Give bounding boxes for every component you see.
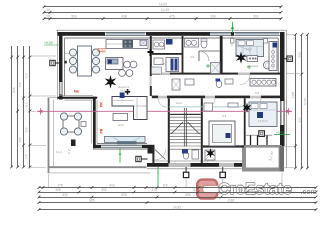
svg-text:+0,00: +0,00: [276, 131, 284, 135]
svg-text:table: table: [118, 123, 125, 127]
left dimension ticks: [10, 56, 31, 169]
svg-text:310: 310: [25, 73, 29, 78]
door gap bottom wall 1: [169, 163, 191, 168]
bedside tables: [231, 39, 235, 44]
bath2 lower cab: [152, 67, 162, 74]
bottom wall band: [147, 163, 246, 167]
door arc bath2: [160, 63, 170, 73]
dining chairs: [69, 49, 99, 73]
red label kitchen: [98, 49, 105, 52]
svg-text:375: 375: [57, 184, 63, 188]
laundry room fixture: [205, 150, 215, 160]
svg-text:30: 30: [46, 15, 50, 19]
bedroom1 dresser: [247, 56, 258, 62]
svg-text:500: 500: [253, 15, 259, 19]
balcony parapet bottom right: [242, 145, 283, 172]
svg-text:12,4: 12,4: [56, 150, 62, 154]
bath2 washer: [166, 58, 179, 72]
svg-text:24,5 m²: 24,5 m²: [120, 89, 130, 93]
interior wall kitchen-hall vertical: [150, 36, 152, 96]
roof overhang outer line top: [56, 29, 286, 31]
green line right: [274, 134, 290, 136]
window left wall: [59, 82, 62, 95]
stairs center rails: [184, 108, 186, 147]
svg-text:st: st: [68, 151, 70, 155]
svg-text:4,6: 4,6: [160, 62, 165, 66]
green cross 1: [247, 65, 251, 69]
bottom dimension lines: [39, 188, 316, 210]
svg-text:11,8 m²: 11,8 m²: [258, 119, 268, 123]
svg-text:500: 500: [71, 15, 77, 19]
extension into living: [65, 53, 78, 55]
bedroom1 door arc: [240, 75, 250, 85]
outer wall top inner face line: [65, 37, 279, 39]
svg-text:265: 265: [25, 127, 29, 132]
interior wall bath right vertical: [182, 36, 184, 73]
small wc fixtures mid: [216, 80, 222, 87]
door gap bottom wall 2: [219, 163, 234, 168]
stair guard glass line: [169, 106, 246, 108]
window jamb bedroom1: [231, 36, 233, 46]
sofa: [112, 97, 147, 120]
interior wall wc-bath horizontal: [152, 53, 183, 55]
door arc bedroom2: [250, 98, 261, 109]
svg-text:1105: 1105: [291, 91, 295, 98]
wc navy shelf: [166, 39, 173, 45]
bottom dimension labels: [55, 184, 243, 210]
svg-text:14,95: 14,95: [159, 3, 167, 7]
step wall horizontal left: [58, 97, 98, 99]
stairwell left wall: [168, 98, 170, 163]
svg-text:115: 115: [25, 102, 29, 107]
wall cross symbol: [148, 49, 154, 56]
svg-text:530: 530: [121, 193, 127, 197]
svg-text:stub.: stub.: [176, 101, 183, 105]
outer wall top band: [58, 32, 285, 36]
bottom wall inner line: [154, 160, 246, 162]
sofa side table: [120, 93, 125, 99]
door arc bath3: [205, 98, 215, 108]
kitchen counter top: [106, 40, 148, 49]
pouf: [264, 61, 272, 69]
top dimension ticks: [43, 5, 283, 20]
svg-text:410: 410: [109, 184, 115, 188]
stairwell right wall: [201, 98, 203, 163]
svg-text:310: 310: [151, 188, 157, 192]
svg-text:490: 490: [185, 193, 191, 197]
stairs treads: [170, 114, 201, 149]
roof overhang outer line right: [285, 30, 287, 168]
svg-text:438: 438: [121, 15, 127, 19]
interior wall bedroom1 left vertical: [220, 36, 223, 73]
bath3 radiator: [228, 103, 238, 107]
hall fixtures left: [185, 79, 194, 85]
window right wall: [281, 101, 284, 125]
window top bedroom: [234, 32, 280, 35]
bath3 shower: [209, 121, 235, 146]
svg-text:PR: PR: [100, 102, 104, 107]
svg-text:885: 885: [89, 199, 95, 203]
right dimension lines: [296, 35, 308, 169]
svg-text:PR: PR: [100, 128, 104, 133]
bath3 bottom wall: [203, 145, 244, 147]
svg-text:390: 390: [297, 52, 301, 57]
kitchen island: [106, 58, 124, 70]
svg-text:390: 390: [101, 188, 107, 192]
bath3 small square: [226, 133, 231, 138]
coffee table: [113, 114, 128, 121]
column 1 below wall: [183, 172, 188, 177]
terrace table: [63, 116, 79, 132]
bath3 sink: [204, 103, 213, 111]
svg-text:170: 170: [25, 154, 29, 159]
tv lowboard: [105, 136, 146, 142]
left dimension labels: [12, 73, 28, 159]
svg-text:+0,00: +0,00: [44, 41, 53, 45]
step wall vertical: [93, 97, 96, 149]
living room bottom wall: [93, 145, 155, 149]
bedroom2 bed: [249, 102, 277, 127]
CroEstate logo mark: [197, 180, 219, 199]
vestibule door leaf: [155, 150, 166, 160]
wall switch: [64, 61, 67, 64]
bath1 door arc: [199, 51, 209, 61]
svg-text:30: 30: [46, 8, 50, 12]
bath1 toilet: [201, 40, 207, 48]
plant living: [105, 75, 117, 89]
outer wall right inner face line: [277, 38, 279, 73]
room area labels: [56, 44, 268, 154]
stairs cut line: [171, 122, 200, 134]
dimension extension lines left: [31, 56, 56, 167]
stove: [123, 40, 134, 48]
door arc corridor-living: [158, 98, 167, 107]
bottom wall outer line: [147, 168, 246, 170]
island stools: [119, 61, 137, 76]
left dimension lines: [12, 46, 30, 167]
svg-text:425: 425: [18, 82, 22, 87]
dimension extension lines right: [283, 35, 300, 168]
plant lower hall: [206, 148, 215, 158]
svg-text:11,2: 11,2: [246, 47, 252, 51]
bedroom2 navy blanket: [257, 112, 263, 118]
svg-text:380: 380: [18, 137, 22, 142]
bedroom1 plant: [236, 52, 247, 64]
wc under stairs fixtures: [183, 152, 189, 159]
sink: [140, 40, 147, 46]
svg-text:430: 430: [62, 193, 68, 197]
green cross 2: [206, 64, 210, 68]
right dimension labels: [291, 52, 307, 122]
dimension extension lines bottom: [49, 173, 283, 188]
svg-text:2,1: 2,1: [160, 44, 165, 48]
svg-text:spavaća: spavaća: [247, 64, 259, 68]
green level marker top: [232, 22, 234, 33]
svg-text:395: 395: [55, 188, 61, 192]
magenta section line: [37, 110, 292, 112]
svg-text:930: 930: [297, 117, 301, 122]
terrace chairs: [60, 113, 81, 135]
wc room sink: [153, 40, 165, 49]
balcony door marks bedroom2 south: [246, 134, 272, 136]
floor drain cross living: [125, 89, 130, 94]
svg-text:13,30: 13,30: [303, 98, 307, 106]
bath2 sink: [154, 58, 163, 65]
svg-text:9,6: 9,6: [255, 91, 260, 95]
bottom dimension ticks: [38, 186, 318, 211]
svg-text:330: 330: [210, 15, 216, 19]
bedroom2 plant: [243, 103, 252, 113]
top dimension lines: [44, 7, 281, 19]
terrace outline: [48, 98, 150, 173]
roof overhang outer line left: [56, 30, 58, 99]
bedroom2 left wall: [244, 98, 246, 145]
green line below tv: [119, 149, 121, 163]
wardrobe right wall: [269, 42, 277, 71]
bedroom1 bed: [236, 40, 264, 57]
dining table: [78, 46, 92, 76]
svg-text:845: 845: [12, 87, 16, 92]
outer wall left band: [59, 32, 63, 100]
corridor bottom wall: [152, 96, 280, 99]
vestibule wall corner block: [148, 146, 155, 154]
column 2 below wall: [220, 172, 225, 177]
green line below vestibule: [157, 167, 159, 186]
svg-text:CroEstate: CroEstate: [219, 181, 293, 198]
living room south window band: [101, 145, 142, 148]
svg-text:14,35: 14,35: [161, 8, 169, 12]
bath1 partition line: [199, 50, 220, 52]
svg-text:115: 115: [162, 184, 167, 188]
svg-text:5,3: 5,3: [222, 114, 227, 118]
balcony right wall: [280, 146, 284, 172]
dim lines over logo: [196, 188, 316, 198]
bottom connector box: [136, 156, 141, 161]
svg-text:4,9: 4,9: [190, 55, 195, 59]
vestibule left wall: [152, 146, 154, 165]
outer wall left inner face line: [64, 38, 66, 96]
right dimension ticks: [294, 33, 309, 169]
corridor top wall: [152, 73, 280, 75]
bath1 washbasin: [185, 39, 199, 48]
right connector box: [287, 56, 292, 61]
top dimension labels: [46, 3, 259, 19]
svg-text:475: 475: [169, 15, 175, 19]
outer wall right band: [280, 32, 285, 146]
svg-text:1180: 1180: [228, 199, 235, 203]
grill: [71, 140, 76, 147]
bath1 shower: [211, 63, 221, 74]
left connector box: [50, 60, 55, 65]
window top kitchen: [105, 32, 146, 35]
svg-text:129: 129: [99, 48, 104, 52]
window top middle: [210, 32, 231, 35]
corridor wardrobe bench: [250, 79, 276, 87]
svg-text:14,95: 14,95: [173, 206, 181, 210]
